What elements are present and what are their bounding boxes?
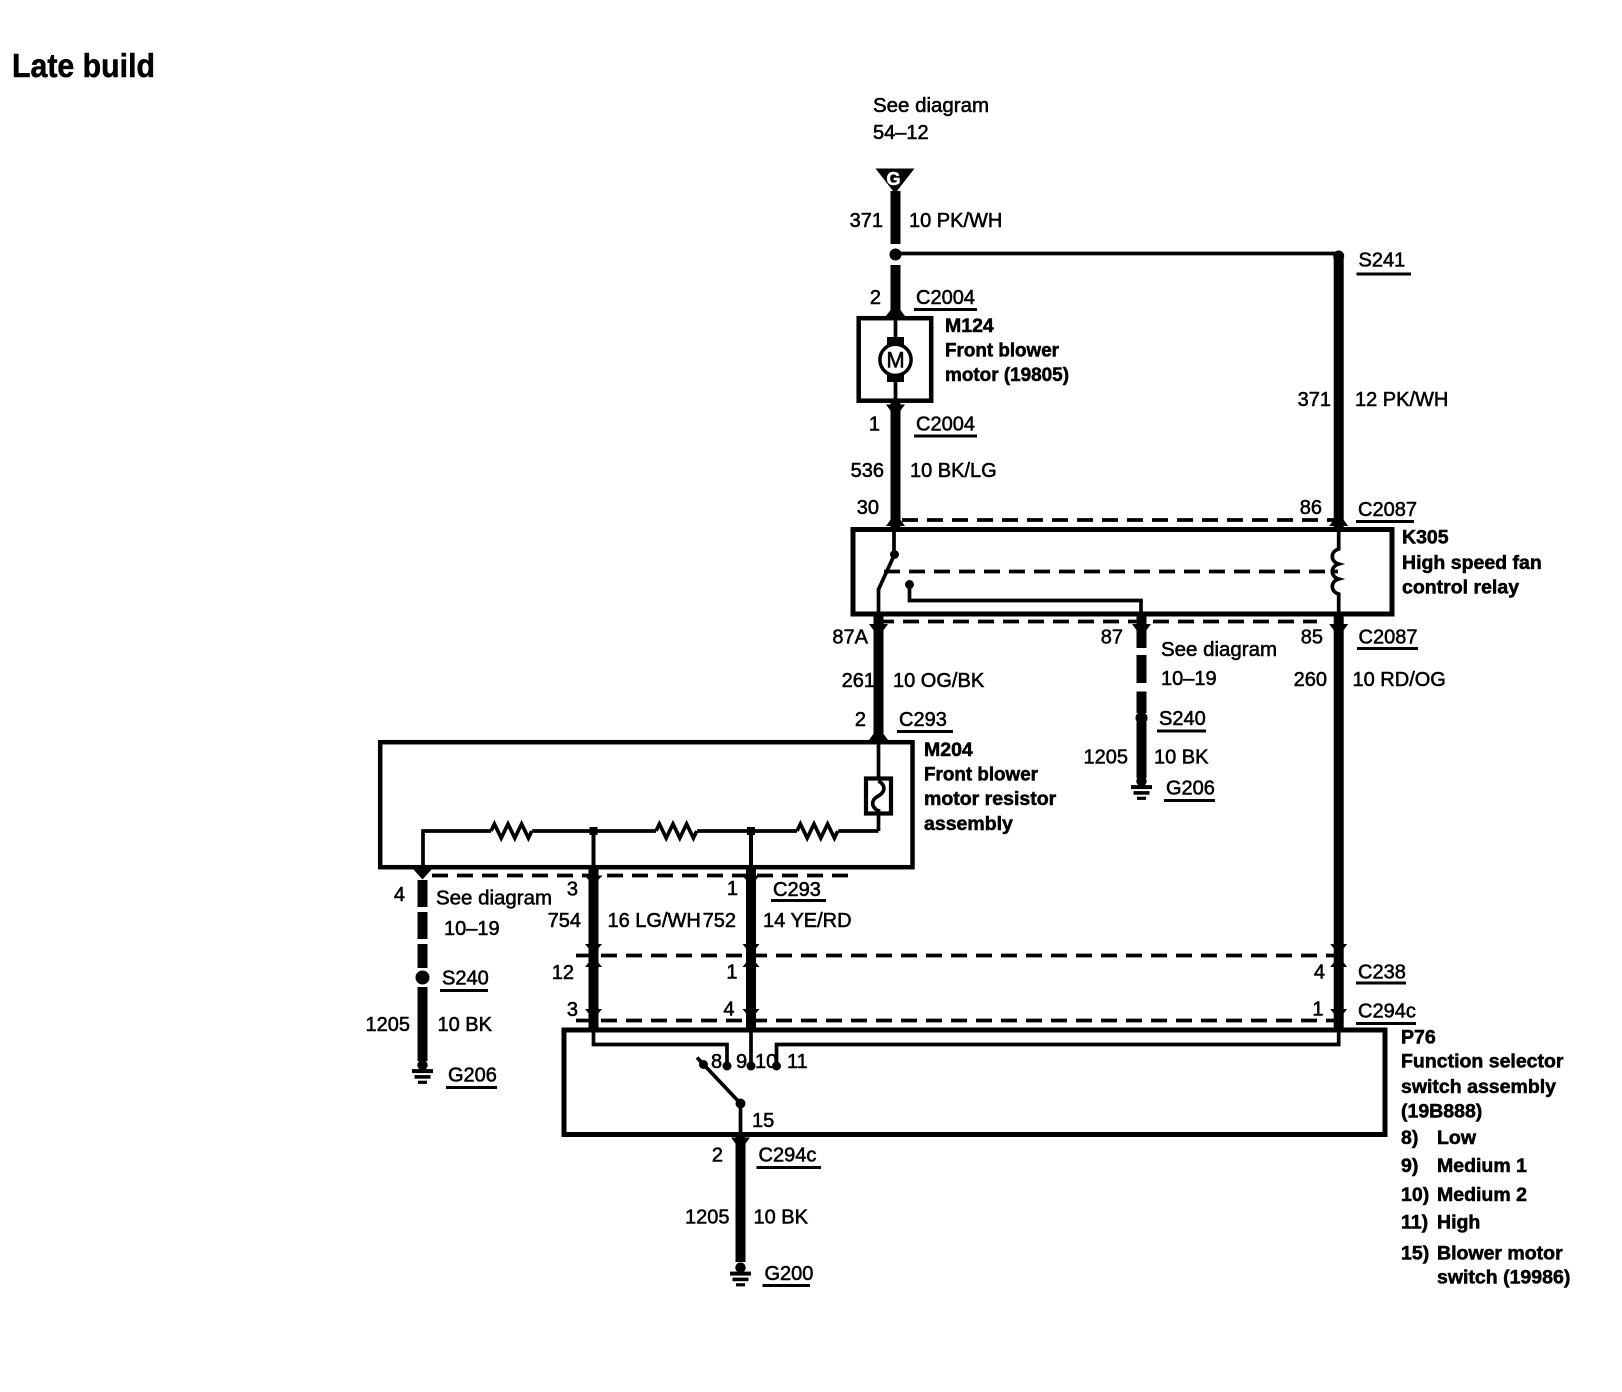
svg-text:Blower motor: Blower motor (1437, 1243, 1563, 1265)
svg-text:10): 10) (1401, 1184, 1429, 1206)
svg-text:14 YE/RD: 14 YE/RD (763, 910, 852, 932)
svg-text:G: G (886, 169, 900, 189)
svg-text:G200: G200 (765, 1263, 814, 1285)
svg-text:control relay: control relay (1402, 577, 1519, 599)
svg-text:371: 371 (850, 210, 883, 232)
svg-text:C2087: C2087 (1358, 499, 1417, 521)
svg-text:261: 261 (842, 670, 875, 692)
svg-text:9: 9 (736, 1051, 747, 1073)
svg-text:P76: P76 (1401, 1027, 1436, 1049)
svg-text:Front blower: Front blower (945, 340, 1059, 362)
svg-text:2: 2 (870, 287, 881, 309)
svg-text:371: 371 (1298, 389, 1331, 411)
svg-text:10–19: 10–19 (444, 918, 500, 940)
svg-text:1: 1 (1312, 999, 1323, 1021)
svg-text:switch assembly: switch assembly (1401, 1076, 1556, 1098)
svg-text:30: 30 (857, 497, 879, 519)
svg-text:87A: 87A (832, 627, 868, 649)
svg-text:G206: G206 (1166, 778, 1215, 800)
svg-text:Front blower: Front blower (924, 764, 1038, 786)
svg-text:754: 754 (548, 910, 581, 932)
svg-text:10 PK/WH: 10 PK/WH (909, 210, 1002, 232)
svg-text:10–19: 10–19 (1161, 668, 1217, 690)
svg-text:1205: 1205 (1084, 747, 1129, 769)
svg-text:11): 11) (1401, 1212, 1428, 1234)
svg-text:assembly: assembly (924, 813, 1013, 835)
svg-text:2: 2 (855, 709, 866, 731)
svg-text:C294c: C294c (759, 1145, 817, 1167)
svg-text:High: High (1437, 1212, 1480, 1234)
svg-text:C2004: C2004 (916, 287, 975, 309)
svg-text:12 PK/WH: 12 PK/WH (1355, 389, 1448, 411)
svg-text:4: 4 (1314, 962, 1325, 984)
svg-text:G206: G206 (448, 1065, 497, 1087)
svg-text:10 BK/LG: 10 BK/LG (910, 460, 997, 482)
svg-text:54–12: 54–12 (873, 122, 929, 144)
svg-text:C293: C293 (773, 879, 821, 901)
svg-text:motor (19805): motor (19805) (945, 364, 1069, 386)
svg-text:K305: K305 (1402, 527, 1449, 549)
svg-text:11: 11 (787, 1051, 808, 1073)
svg-text:See diagram: See diagram (436, 888, 552, 910)
svg-text:(19B888): (19B888) (1401, 1101, 1482, 1123)
svg-text:See diagram: See diagram (873, 95, 989, 117)
svg-text:16 LG/WH: 16 LG/WH (608, 910, 701, 932)
svg-text:12: 12 (552, 962, 574, 984)
svg-text:1: 1 (726, 962, 737, 984)
svg-text:C293: C293 (899, 709, 947, 731)
svg-text:8): 8) (1401, 1127, 1418, 1149)
svg-text:C2004: C2004 (916, 414, 975, 436)
svg-text:High speed fan: High speed fan (1402, 552, 1542, 574)
svg-text:8: 8 (711, 1051, 722, 1073)
svg-text:switch (19986): switch (19986) (1437, 1267, 1570, 1289)
svg-text:Medium 1: Medium 1 (1437, 1155, 1527, 1177)
svg-text:536: 536 (851, 460, 884, 482)
svg-text:2: 2 (712, 1145, 723, 1167)
svg-text:C294c: C294c (1358, 1001, 1416, 1023)
svg-text:10 OG/BK: 10 OG/BK (893, 670, 985, 692)
svg-text:S241: S241 (1359, 250, 1406, 272)
svg-text:1: 1 (869, 414, 880, 436)
svg-text:87: 87 (1101, 627, 1123, 649)
svg-text:752: 752 (703, 910, 736, 932)
svg-text:1205: 1205 (366, 1014, 411, 1036)
svg-text:See diagram: See diagram (1161, 639, 1277, 661)
svg-text:3: 3 (567, 879, 578, 901)
svg-text:S240: S240 (1159, 708, 1206, 730)
svg-text:4: 4 (394, 884, 405, 906)
svg-text:1205: 1205 (685, 1207, 730, 1229)
svg-text:M: M (886, 348, 904, 373)
svg-text:260: 260 (1294, 669, 1327, 691)
svg-text:Function selector: Function selector (1401, 1051, 1564, 1073)
svg-text:motor resistor: motor resistor (924, 788, 1057, 810)
svg-text:10 BK: 10 BK (438, 1014, 493, 1036)
svg-text:10 RD/OG: 10 RD/OG (1353, 669, 1446, 691)
svg-text:86: 86 (1300, 497, 1322, 519)
svg-text:C2087: C2087 (1359, 627, 1418, 649)
svg-text:15): 15) (1401, 1243, 1429, 1265)
svg-text:85: 85 (1301, 627, 1323, 649)
svg-text:3: 3 (567, 999, 578, 1021)
svg-text:1: 1 (727, 878, 738, 900)
svg-text:Medium 2: Medium 2 (1437, 1184, 1527, 1206)
svg-text:C238: C238 (1358, 962, 1406, 984)
svg-text:M124: M124 (945, 315, 994, 337)
svg-text:10 BK: 10 BK (1154, 747, 1209, 769)
svg-text:Late build: Late build (12, 47, 155, 84)
svg-text:S240: S240 (442, 968, 489, 990)
svg-text:10: 10 (755, 1051, 777, 1073)
svg-text:Low: Low (1437, 1127, 1477, 1149)
svg-text:10 BK: 10 BK (754, 1207, 809, 1229)
svg-text:4: 4 (723, 999, 734, 1021)
svg-text:15: 15 (752, 1110, 774, 1132)
svg-text:M204: M204 (924, 739, 973, 761)
svg-text:9): 9) (1401, 1155, 1418, 1177)
